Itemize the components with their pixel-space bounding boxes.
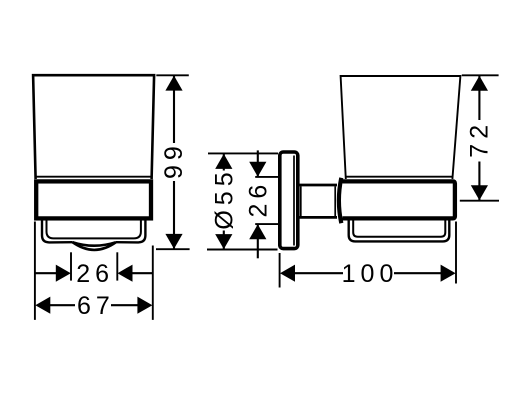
dimension D55: extension line bottom [207, 249, 278, 251]
dimension 67: extension line right [152, 246, 154, 320]
svg-text:100: 100 [342, 260, 399, 288]
side view: holder bowl outer contour [349, 219, 450, 241]
dimension D55: arrow up [215, 154, 232, 169]
dimension 26 front: extension line left [70, 252, 72, 280]
side view: holder ring band [343, 181, 455, 218]
side view: mounting stem [299, 185, 337, 217]
dimension 100: extension line right [455, 222, 457, 284]
dimension 67: dimension line with arrows [48, 304, 140, 306]
dimension 72: arrow up [471, 76, 488, 91]
dimension D55: dimension line [223, 154, 225, 249]
front view: glass bottom line [36, 176, 151, 178]
dimension 72: extension line bottom [460, 200, 499, 202]
svg-text:99: 99 [160, 141, 188, 179]
dimension D55: arrow down [215, 234, 232, 249]
dimension 100: extension line left [279, 253, 281, 288]
dimension D55: extension line top [208, 152, 278, 154]
side view: glass bottom line [346, 176, 452, 178]
side view: wall plate face line [293, 156, 295, 246]
dimension 26 side: extension line top [255, 176, 278, 178]
dimension 26 side: arrow down [249, 162, 266, 177]
dimension 26 side: extension line bottom [255, 223, 278, 225]
dimension 67: extension line left [34, 222, 36, 320]
dimension 26 front: right tail and arrow [131, 272, 153, 274]
dimension 99: dimension line [173, 76, 175, 249]
front view: glass tumbler outline [33, 75, 154, 179]
svg-text:Ø55: Ø55 [211, 167, 239, 229]
dimension 99: arrow down [165, 234, 182, 249]
dimension 26 front: left tail and arrow [35, 272, 58, 274]
side view: holder bowl inner line [353, 219, 445, 237]
svg-text:72: 72 [466, 120, 494, 158]
front view: holder ring band [36, 181, 151, 218]
side view: glass tumbler outline [341, 76, 461, 179]
side view: band left collar [339, 178, 341, 223]
dimension 26 front: extension line right [116, 252, 118, 280]
dimension 72: extension line top [462, 74, 499, 76]
dimension 26 side: dimension line [257, 150, 259, 258]
front view: holder bowl outer contour [42, 220, 145, 243]
dimension 72: arrow down [471, 185, 488, 200]
dimension 99: extension line top [156, 74, 189, 76]
svg-text:67: 67 [77, 292, 115, 320]
side view: wall plate [280, 152, 298, 249]
dimension 26 side: arrow up [249, 224, 266, 239]
front view: holder bowl inner line [47, 220, 141, 239]
dimension 99: arrow up [165, 76, 182, 91]
dimension 100: dimension line with arrows [293, 272, 442, 274]
svg-text:26: 26 [245, 180, 273, 218]
front view: bottom crescent dip [73, 242, 117, 250]
dimension 99: extension line bottom [156, 248, 190, 250]
dimension 72: dimension line [478, 76, 480, 200]
svg-text:26: 26 [76, 260, 114, 288]
